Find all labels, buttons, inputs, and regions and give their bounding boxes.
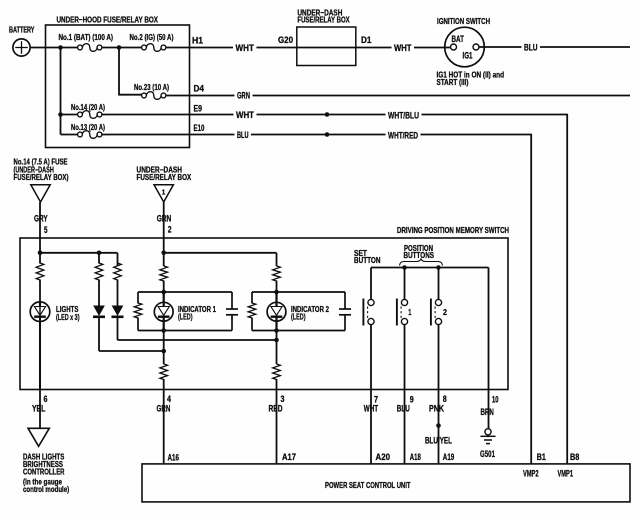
svg-text:H1: H1 [192, 36, 203, 46]
wire label WHT row1b [392, 43, 415, 53]
node indicator2 lower junction [274, 338, 279, 343]
pin A19 [443, 452, 455, 462]
node GRY junction [38, 251, 43, 256]
wire label GRY [34, 213, 48, 223]
wire GRY column [39, 202, 41, 253]
pin E9 [194, 104, 203, 114]
svg-text:WHT: WHT [236, 110, 254, 120]
wire label PNK [429, 403, 444, 413]
svg-text:BAT: BAT [452, 34, 465, 44]
svg-text:B8: B8 [570, 452, 579, 462]
svg-text:BRN: BRN [481, 407, 494, 417]
pin D1 [361, 35, 372, 45]
svg-text:WHT: WHT [236, 43, 255, 53]
wire label YEL [32, 403, 46, 413]
pin 10 [492, 394, 499, 404]
svg-text:BLU: BLU [397, 403, 410, 413]
svg-text:control module): control module) [23, 485, 69, 494]
pin A18 [410, 452, 421, 462]
fuse No.14 (7.5A) under-dash symbol [14, 157, 69, 202]
svg-text:G20: G20 [278, 35, 293, 45]
svg-text:DRIVING POSITION MEMORY SWITCH: DRIVING POSITION MEMORY SWITCH [397, 225, 509, 235]
svg-text:PNK: PNK [429, 403, 444, 413]
wire switch outputs down [371, 325, 439, 464]
svg-text:FUSE/RELAY BOX: FUSE/RELAY BOX [137, 173, 192, 182]
fuse No.14 (20 A) [61, 103, 106, 118]
fuse No.2 (IG) (50 A) [130, 33, 174, 51]
svg-text:(LED): (LED) [291, 313, 306, 322]
node junction to No.23 [117, 45, 122, 50]
wire label BRN [481, 407, 494, 417]
node junction battery feed [58, 45, 63, 50]
node diode1 top [97, 251, 102, 256]
wire WHT/RED drop to B1 [530, 134, 532, 464]
node indicator1 top [161, 290, 166, 295]
wire label BLU [522, 43, 541, 53]
svg-text:(LED): (LED) [178, 313, 193, 322]
resistor diode1 column [95, 253, 103, 307]
resistor lights column [36, 253, 44, 302]
wire label RED [269, 403, 283, 413]
svg-text:No.13 (20 A): No.13 (20 A) [71, 123, 105, 132]
pin 6 [44, 394, 48, 404]
switch set button [363, 299, 374, 326]
LED indicator 2 [267, 292, 329, 331]
wire label WHT/RED [386, 131, 421, 141]
svg-text:No.1 (BAT) (100 A): No.1 (BAT) (100 A) [59, 33, 114, 42]
under-dash fuse/relay box symbol 1 [137, 165, 192, 202]
wire label WHT row1 [233, 43, 257, 53]
wire BRN to ground [488, 390, 490, 429]
wire label BLU row4 [235, 130, 252, 140]
switch position button 2 [431, 299, 448, 326]
LED indicator 1 [154, 292, 216, 331]
pin A17 [282, 452, 296, 462]
svg-text:BLU/YEL: BLU/YEL [425, 436, 452, 446]
resistor indicator2 column [273, 266, 281, 292]
wire BLU / WHT-RED row [102, 134, 531, 136]
wire GRN row to right edge [166, 95, 630, 97]
wire label BLU/YEL [425, 436, 452, 446]
pin E10 [194, 123, 205, 133]
wire branch left vertical [60, 48, 62, 135]
pin 5 [44, 225, 48, 235]
svg-text:9: 9 [410, 394, 414, 404]
svg-text:D4: D4 [194, 84, 205, 94]
svg-text:FUSE/RELAY BOX: FUSE/RELAY BOX [297, 15, 350, 25]
wire diode2 to indicator2 bottom [118, 317, 277, 340]
power seat control unit box [142, 464, 630, 502]
pin G20 [278, 35, 293, 45]
svg-text:A16: A16 [168, 452, 180, 462]
splice node PNK to BLU/YEL [436, 423, 441, 428]
svg-text:A17: A17 [282, 452, 296, 462]
svg-text:YEL: YEL [32, 403, 46, 413]
svg-text:G501: G501 [480, 449, 495, 459]
wire BLU from ignition [479, 46, 630, 48]
wire WHT / WHT-BLU row [102, 114, 567, 116]
svg-text:A19: A19 [443, 452, 455, 462]
wire WHT/BLU drop to B8 [566, 114, 568, 464]
indicator 1 box with resistor and capacitor [134, 292, 238, 331]
pin D4 [194, 84, 205, 94]
node GRN junction [161, 251, 166, 256]
switch position button 1 [397, 299, 412, 326]
svg-text:WHT/RED: WHT/RED [388, 131, 418, 141]
svg-text:BUTTONS: BUTTONS [404, 251, 435, 260]
wire branch No.23 vertical [119, 48, 142, 96]
wire label GRN row2 [235, 91, 253, 101]
fuse No.13 (20 A) [61, 123, 106, 138]
pin H1 [192, 36, 203, 46]
node position button 2 feed [436, 265, 441, 299]
wire label GRN [157, 213, 172, 223]
under-hood fuse/relay box [46, 15, 190, 148]
resistor diode2 column [114, 263, 122, 307]
svg-text:UNDER−HOOD FUSE/RELAY BOX: UNDER−HOOD FUSE/RELAY BOX [57, 15, 159, 25]
svg-text:BLU: BLU [524, 43, 538, 53]
battery [9, 25, 35, 57]
wire pin3 to A17 [276, 390, 278, 464]
diode 1 [93, 306, 105, 317]
node position button 1 feed [402, 265, 407, 299]
ground G501 [480, 429, 496, 459]
indicator 2 box with resistor and capacitor [248, 292, 351, 331]
resistor below indicator2 [273, 364, 281, 390]
label position buttons with brace [400, 244, 443, 266]
svg-text:D1: D1 [361, 35, 372, 45]
svg-text:POWER SEAT CONTROL UNIT: POWER SEAT CONTROL UNIT [325, 480, 411, 490]
svg-text:5: 5 [44, 225, 48, 235]
resistor below indicator1 [160, 364, 168, 390]
svg-text:START (III): START (III) [437, 78, 469, 87]
svg-text:No.14 (20 A): No.14 (20 A) [71, 103, 105, 112]
wire label WHT row3 [234, 110, 257, 120]
svg-text:FUSE/RELAY BOX): FUSE/RELAY BOX) [14, 173, 69, 182]
ignition switch [437, 16, 505, 87]
node indicator2 top [274, 290, 279, 295]
svg-text:CONTROLLER: CONTROLLER [23, 468, 65, 477]
svg-text:GRY: GRY [34, 213, 48, 223]
svg-text:WHT/BLU: WHT/BLU [388, 111, 419, 121]
svg-text:WHT: WHT [394, 43, 412, 53]
node indicator1 lower junction [161, 349, 166, 354]
svg-text:E10: E10 [194, 123, 205, 133]
under-dash fuse/relay box (top) [297, 7, 356, 65]
svg-text:No.23 (10 A): No.23 (10 A) [134, 83, 169, 92]
wire GRN column [163, 202, 165, 266]
diode 2 [112, 306, 124, 317]
LED lights (LED x 3) [30, 302, 80, 390]
svg-text:VMP1: VMP1 [558, 468, 574, 478]
wire node row right [164, 253, 277, 266]
svg-text:10: 10 [492, 394, 499, 404]
splice node WHT to WHT/BLU [325, 112, 330, 117]
pin B1 [537, 452, 546, 462]
wire indicator1 down [163, 331, 165, 365]
svg-text:IG1: IG1 [463, 51, 473, 61]
svg-text:A18: A18 [410, 452, 421, 462]
wire indicator2 down [276, 331, 278, 365]
node indicator1 bottom [161, 328, 166, 333]
wire label BLU bottom [397, 403, 410, 413]
resistor indicator1 column [160, 266, 168, 292]
driving position memory switch box [20, 225, 509, 390]
node junction No.14 [58, 112, 63, 117]
node indicator2 bottom [274, 328, 279, 333]
pin 2 [168, 225, 172, 235]
label set button [354, 249, 381, 265]
wire label WHT bottom [364, 403, 379, 413]
wire switch feed rail [371, 268, 489, 390]
wire label WHT/BLU [386, 111, 422, 121]
svg-text:GRN: GRN [157, 213, 172, 223]
wire pin6 down to controller [39, 390, 41, 429]
svg-text:E9: E9 [194, 104, 203, 114]
svg-text:2: 2 [443, 308, 447, 317]
fuse No.1 (BAT) (100 A) [59, 33, 114, 51]
svg-text:BLU: BLU [237, 130, 249, 140]
splice node BLU to WHT/RED [325, 132, 330, 137]
pin 4 [167, 394, 171, 404]
dash lights brightness controller [23, 428, 69, 494]
wire diode1 to indicator1 bottom [99, 317, 164, 351]
wire pin4 to A16 [163, 390, 165, 464]
svg-text:IGNITION SWITCH: IGNITION SWITCH [437, 16, 490, 26]
svg-text:B1: B1 [537, 452, 546, 462]
svg-text:VMP2: VMP2 [523, 468, 539, 478]
svg-text:1: 1 [408, 308, 412, 317]
svg-text:(LED x 3): (LED x 3) [56, 313, 80, 322]
pin 9 [410, 394, 414, 404]
svg-text:BATTERY: BATTERY [9, 25, 35, 35]
fuse No.23 (10 A) [134, 83, 169, 99]
wire node row left [40, 253, 118, 266]
svg-text:BUTTON: BUTTON [354, 256, 381, 265]
pin A20 [376, 452, 391, 462]
svg-text:No.2 (IG) (50 A): No.2 (IG) (50 A) [130, 33, 174, 42]
svg-text:RED: RED [269, 403, 283, 413]
svg-text:A20: A20 [376, 452, 391, 462]
wire battery to ignition row [30, 47, 451, 49]
pin 7 [374, 394, 378, 404]
pin 3 [281, 394, 285, 404]
pin VMP2 [523, 468, 539, 478]
svg-text:GRN: GRN [237, 91, 250, 101]
pin A16 [168, 452, 180, 462]
svg-text:WHT: WHT [364, 403, 379, 413]
wire label GRN bottom [157, 403, 171, 413]
pin 8 [443, 394, 447, 404]
pin VMP1 [558, 468, 574, 478]
svg-text:GRN: GRN [157, 403, 171, 413]
svg-text:1: 1 [162, 190, 166, 197]
svg-text:2: 2 [168, 225, 172, 235]
pin B8 [570, 452, 579, 462]
